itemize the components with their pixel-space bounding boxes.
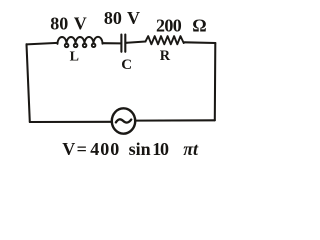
AC source sine tilde bbox=[116, 119, 131, 122]
svg-text:R: R bbox=[160, 48, 171, 64]
inductor bottom loop 4 bbox=[92, 44, 96, 48]
svg-text:80V: 80V bbox=[50, 14, 87, 34]
wire right vertical bbox=[214, 43, 217, 120]
resistor R zigzag bbox=[146, 36, 185, 44]
inductor L coil bumps bbox=[58, 37, 67, 44]
inductor bottom loop 1 bbox=[65, 44, 69, 48]
wire bottom segment B (source to right corner) bbox=[136, 119, 215, 121]
svg-text:80V: 80V bbox=[104, 8, 140, 28]
wire bottom segment A (left corner to source) bbox=[30, 121, 112, 123]
capacitor C left plate bbox=[120, 35, 122, 52]
svg-text:C: C bbox=[121, 57, 132, 73]
wire top segment D (resistor to corner) bbox=[185, 41, 216, 44]
inductor bottom loop 2 bbox=[74, 44, 78, 48]
wire top segment C (capacitor to resistor) bbox=[126, 42, 145, 43]
svg-text:L: L bbox=[70, 50, 79, 65]
wire top segment A (corner to inductor) bbox=[27, 43, 58, 45]
inductor bottom loop 3 bbox=[83, 44, 87, 48]
capacitor C right plate bbox=[124, 35, 126, 52]
wire top segment B (inductor to capacitor) bbox=[103, 42, 121, 44]
svg-text:V=400sin10πt: V=400sin10πt bbox=[62, 139, 199, 159]
wire left vertical bbox=[27, 44, 30, 122]
AC source circle bbox=[112, 108, 135, 133]
svg-text:200Ω: 200Ω bbox=[156, 15, 207, 35]
